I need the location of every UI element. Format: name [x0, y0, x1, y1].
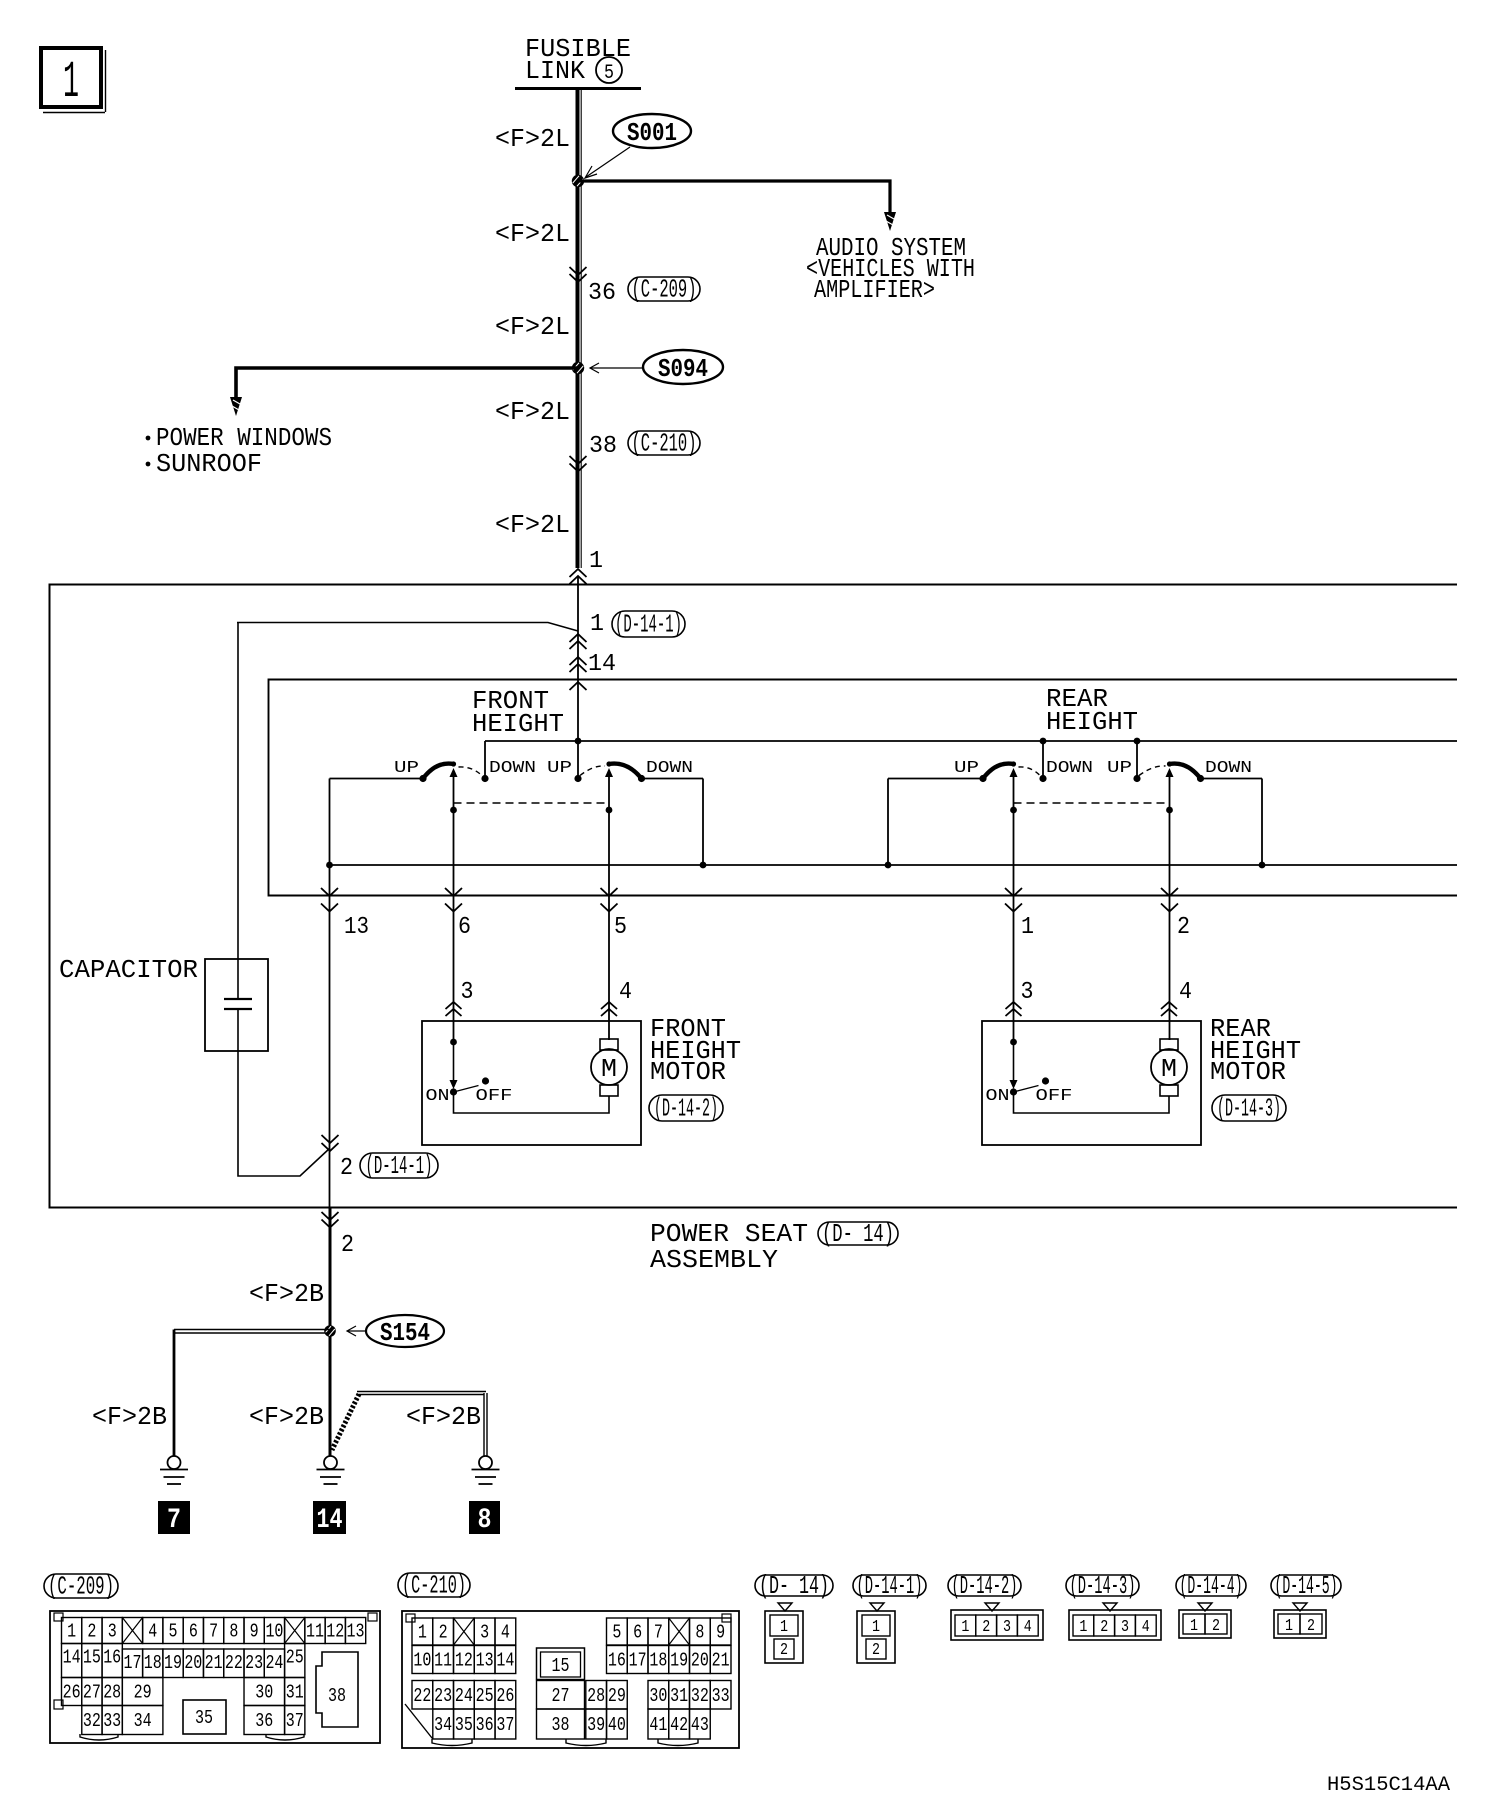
switch arm with arrow (second): [1169, 777, 1171, 810]
wire: 5 down to front motor pin 4: [608, 810, 610, 1040]
svg-text:8: 8: [229, 1621, 238, 1643]
svg-text:37: 37: [496, 1714, 514, 1736]
switch blade alternate (dashed to DOWN): [1019, 767, 1042, 777]
wire: main feed inside assembly: [577, 577, 579, 778]
wire: 2 down to rear motor pin 4: [1169, 810, 1171, 1040]
wire: UP contact to output: [888, 778, 983, 780]
svg-text:M: M: [1161, 1054, 1177, 1084]
switch blade alternate (dashed to DOWN): [459, 767, 484, 777]
connector D-14-4 pinout: [1176, 1575, 1246, 1596]
svg-text:21: 21: [205, 1652, 223, 1674]
ground 14: [324, 1456, 337, 1469]
connector D-14 pinout: [755, 1575, 833, 1596]
svg-text:13: 13: [344, 914, 369, 941]
svg-text:25: 25: [476, 1685, 494, 1707]
svg-text:9: 9: [250, 1621, 259, 1643]
svg-text:(C-209): (C-209): [48, 1572, 114, 1602]
svg-text:36: 36: [588, 280, 616, 307]
svg-text:23: 23: [245, 1652, 263, 1674]
connector C-209 pinout: [44, 1574, 118, 1598]
svg-text:14: 14: [588, 651, 616, 678]
svg-text:4: 4: [1024, 1618, 1032, 1637]
svg-text:5: 5: [614, 914, 627, 941]
wire: branch to ground 7: [174, 1329, 330, 1331]
switch blade (closed to UP): [983, 764, 1014, 779]
wire: 6 down to front motor pin 3: [453, 810, 455, 1042]
switch blade (closed to UP): [423, 764, 454, 779]
svg-text:32: 32: [691, 1685, 709, 1707]
svg-text:UP: UP: [1107, 759, 1132, 778]
mechanical link (dashed): [1014, 802, 1170, 804]
svg-text:<F>2L: <F>2L: [495, 397, 570, 427]
wire: capacitor to pin 2 junction: [238, 1009, 330, 1176]
svg-text:17: 17: [123, 1652, 141, 1674]
svg-text:7: 7: [209, 1621, 218, 1643]
svg-text:OFF: OFF: [476, 1087, 513, 1106]
svg-text:43: 43: [691, 1714, 709, 1736]
connector C-210 pinout: [398, 1573, 470, 1597]
svg-text:1: 1: [1190, 1617, 1198, 1636]
svg-text:41: 41: [649, 1714, 667, 1736]
svg-text:35: 35: [195, 1707, 213, 1729]
svg-text:<F>2B: <F>2B: [249, 1402, 324, 1432]
svg-text:26: 26: [63, 1682, 81, 1704]
svg-text:29: 29: [608, 1685, 626, 1707]
svg-text:6: 6: [458, 914, 471, 941]
svg-text:<F>2B: <F>2B: [406, 1402, 481, 1432]
contact UP: [419, 775, 426, 782]
svg-text:15: 15: [552, 1655, 570, 1677]
svg-text:(D-14-1): (D-14-1): [366, 1151, 433, 1181]
svg-text:31: 31: [286, 1682, 304, 1704]
svg-text:24: 24: [265, 1652, 283, 1674]
switch arm with arrow: [1013, 777, 1015, 810]
svg-text:42: 42: [670, 1714, 688, 1736]
node: power windows / sunroof label: [146, 436, 151, 441]
svg-text:1: 1: [590, 611, 604, 638]
contact UP: [979, 775, 986, 782]
svg-text:(D- 14): (D- 14): [759, 1571, 829, 1601]
svg-text:22: 22: [413, 1685, 431, 1707]
svg-text:<F>2L: <F>2L: [495, 510, 570, 540]
svg-text:20: 20: [184, 1652, 202, 1674]
ground 7: [168, 1456, 181, 1469]
wire: switch output pin 5: [601, 888, 618, 896]
svg-text:1: 1: [63, 53, 79, 112]
wire: switch supply bus: [485, 740, 1457, 742]
svg-text:<F>2L: <F>2L: [495, 219, 570, 249]
splice S094: [572, 362, 584, 374]
svg-text:9: 9: [716, 1622, 725, 1644]
svg-text:36: 36: [255, 1710, 273, 1732]
svg-text:17: 17: [629, 1650, 647, 1672]
power seat assembly box D-14: [50, 585, 1458, 1208]
front height motor assembly D-14-2: [422, 1021, 641, 1145]
svg-text:(D-14-1): (D-14-1): [615, 610, 682, 640]
svg-text:(D-14-4): (D-14-4): [1180, 1571, 1243, 1601]
svg-text:14: 14: [317, 1505, 343, 1536]
svg-text:10: 10: [265, 1621, 283, 1643]
svg-text:2: 2: [1212, 1617, 1220, 1636]
svg-text:ASSEMBLY: ASSEMBLY: [650, 1245, 778, 1275]
svg-text:<F>2B: <F>2B: [249, 1279, 324, 1309]
svg-text:14: 14: [496, 1650, 514, 1672]
svg-text:34: 34: [434, 1714, 452, 1736]
svg-text:25: 25: [286, 1647, 304, 1669]
svg-text:36: 36: [476, 1714, 494, 1736]
svg-text:26: 26: [496, 1685, 514, 1707]
connector C-209 crossing, pin 36: [570, 267, 587, 275]
svg-text:12: 12: [326, 1621, 344, 1643]
svg-text:M: M: [601, 1054, 617, 1084]
wire: 13 down to pin 2: [329, 865, 331, 1208]
svg-text:12: 12: [455, 1650, 473, 1672]
svg-text:MOTOR: MOTOR: [1210, 1057, 1286, 1087]
svg-text:UP: UP: [394, 759, 419, 778]
svg-text:37: 37: [286, 1710, 304, 1732]
svg-text:OFF: OFF: [1036, 1087, 1073, 1106]
svg-text:13: 13: [476, 1650, 494, 1672]
svg-text:33: 33: [712, 1685, 730, 1707]
svg-text:38: 38: [328, 1685, 346, 1707]
svg-text:4: 4: [501, 1622, 510, 1644]
wire: 1 down to rear motor pin 3: [1013, 810, 1015, 1042]
svg-text:CAPACITOR: CAPACITOR: [59, 955, 198, 985]
svg-text:19: 19: [164, 1652, 182, 1674]
svg-text:S154: S154: [380, 1318, 430, 1348]
svg-text:11: 11: [306, 1621, 324, 1643]
svg-text:3: 3: [461, 979, 474, 1006]
svg-text:6: 6: [633, 1622, 642, 1644]
svg-text:4: 4: [148, 1621, 157, 1643]
svg-text:HEIGHT: HEIGHT: [1046, 707, 1138, 737]
svg-text:15: 15: [83, 1647, 101, 1669]
svg-text:19: 19: [670, 1650, 688, 1672]
svg-text:4: 4: [619, 979, 632, 1006]
svg-text:22: 22: [225, 1652, 243, 1674]
svg-text:5: 5: [169, 1621, 178, 1643]
wire: switch to motor: [1014, 1092, 1170, 1113]
contact UP (second): [574, 775, 581, 782]
svg-text:(D-14-2): (D-14-2): [952, 1571, 1018, 1601]
splice S001: [572, 175, 584, 187]
switch blade alternate (dashed): [1139, 766, 1166, 776]
svg-text:ON: ON: [986, 1087, 1010, 1106]
svg-text:5: 5: [612, 1622, 621, 1644]
svg-text:2: 2: [780, 1641, 788, 1660]
svg-text:1: 1: [780, 1618, 788, 1637]
svg-text:1: 1: [1021, 914, 1034, 941]
mechanical link (dashed): [454, 802, 610, 804]
connector D-14-1 pinout: [853, 1575, 926, 1596]
wire: branch to ground 8 (hatched): [332, 1394, 359, 1450]
svg-text:30: 30: [649, 1685, 667, 1707]
svg-text:2: 2: [1100, 1618, 1108, 1637]
svg-text:18: 18: [649, 1650, 667, 1672]
svg-text:27: 27: [552, 1685, 570, 1707]
svg-text:(C-210): (C-210): [632, 429, 697, 459]
svg-text:7: 7: [167, 1505, 181, 1536]
svg-text:38: 38: [589, 433, 617, 460]
connector D-14-3 pinout: [1066, 1575, 1139, 1596]
svg-text:30: 30: [255, 1682, 273, 1704]
svg-text:16: 16: [103, 1647, 121, 1669]
svg-text:1: 1: [418, 1622, 427, 1644]
svg-text:6: 6: [189, 1621, 198, 1643]
page number box 1: [41, 48, 101, 107]
svg-text:11: 11: [434, 1650, 452, 1672]
svg-text:H5S15C14AA: H5S15C14AA: [1327, 1774, 1450, 1797]
svg-text:3: 3: [108, 1621, 117, 1643]
svg-text:(C-209): (C-209): [632, 275, 697, 305]
svg-text:ON: ON: [426, 1087, 450, 1106]
wire: jumper from pin 1 to capacitor branch: [237, 623, 578, 632]
wire: switch output pin 6: [445, 888, 462, 896]
svg-text:31: 31: [670, 1685, 688, 1707]
wire: DOWN contact to return bus: [642, 778, 704, 780]
svg-text:1: 1: [589, 548, 603, 575]
svg-text:LINK: LINK: [525, 56, 585, 86]
svg-text:UP: UP: [954, 759, 979, 778]
svg-text:2: 2: [439, 1622, 448, 1644]
svg-text:28: 28: [103, 1682, 121, 1704]
svg-text:4: 4: [1179, 979, 1192, 1006]
svg-text:DOWN: DOWN: [1046, 759, 1093, 778]
svg-text:(D-14-1): (D-14-1): [857, 1571, 923, 1601]
svg-text:HEIGHT: HEIGHT: [472, 709, 564, 739]
svg-text:14: 14: [63, 1647, 81, 1669]
svg-text:1: 1: [872, 1618, 880, 1637]
svg-text:UP: UP: [547, 759, 572, 778]
svg-text:DOWN: DOWN: [1205, 759, 1252, 778]
svg-text:2: 2: [340, 1155, 353, 1182]
splice S154: [324, 1325, 336, 1337]
svg-text:1: 1: [67, 1621, 76, 1643]
svg-text:(D-14-3): (D-14-3): [1217, 1094, 1281, 1124]
svg-text:<F>2L: <F>2L: [495, 312, 570, 342]
svg-text:2: 2: [872, 1641, 880, 1660]
connector D-14 pin 2: [322, 1212, 339, 1220]
motor M: [600, 1039, 618, 1050]
switch arm with arrow (second): [608, 777, 610, 810]
wire: switch output pin 1: [1005, 888, 1022, 896]
svg-text:10: 10: [413, 1650, 431, 1672]
svg-text:23: 23: [434, 1685, 452, 1707]
wire: DOWN contact to return bus: [1201, 778, 1263, 780]
svg-text:13: 13: [347, 1621, 365, 1643]
node: supply junction front: [575, 738, 582, 745]
svg-text:<F>2B: <F>2B: [92, 1402, 167, 1432]
thermal protector switch: [1010, 1039, 1017, 1046]
connector D-14-5 pinout: [1271, 1575, 1341, 1596]
wire: switch return bus: [330, 864, 1458, 866]
svg-text:39: 39: [587, 1714, 605, 1736]
contact UP (second): [1133, 775, 1140, 782]
contact DOWN (second): [638, 775, 645, 782]
svg-text:34: 34: [134, 1710, 152, 1732]
svg-text:1: 1: [961, 1618, 969, 1637]
svg-text:33: 33: [103, 1710, 121, 1732]
switch blade (closed to DOWN): [1170, 764, 1201, 779]
motor M: [1160, 1039, 1178, 1050]
contact DOWN: [1039, 775, 1046, 782]
switch arm with arrow: [453, 777, 455, 810]
wire: branch to audio system (thick): [578, 181, 890, 212]
svg-text:16: 16: [608, 1650, 626, 1672]
svg-text:3: 3: [1121, 1618, 1129, 1637]
svg-text:(D-14-3): (D-14-3): [1070, 1571, 1136, 1601]
svg-text:2: 2: [87, 1621, 96, 1643]
svg-text:S094: S094: [658, 354, 708, 384]
svg-text:(D- 14): (D- 14): [822, 1219, 894, 1249]
connector D-14-1 pin 2: [322, 1135, 339, 1143]
svg-text:20: 20: [691, 1650, 709, 1672]
svg-text:32: 32: [83, 1710, 101, 1732]
svg-text:(D-14-5): (D-14-5): [1275, 1571, 1338, 1601]
svg-text:AMPLIFIER>: AMPLIFIER>: [814, 275, 935, 305]
svg-text:5: 5: [604, 62, 614, 85]
power seat switch box: [269, 680, 1458, 896]
svg-text:2: 2: [982, 1618, 990, 1637]
wire: ground feed (F)2B: [329, 1208, 332, 1456]
svg-text:21: 21: [712, 1650, 730, 1672]
wire: UP contact to output: [330, 778, 424, 780]
svg-text:27: 27: [83, 1682, 101, 1704]
svg-text:35: 35: [455, 1714, 473, 1736]
wire: switch to motor: [454, 1092, 610, 1113]
svg-text:38: 38: [552, 1714, 570, 1736]
svg-text:3: 3: [1021, 979, 1034, 1006]
svg-text:8: 8: [695, 1622, 704, 1644]
svg-text:(D-14-2): (D-14-2): [654, 1094, 718, 1124]
switch blade (closed to DOWN): [609, 764, 642, 779]
ground 8: [479, 1456, 492, 1469]
wire: fusible link feed (thick): [576, 88, 580, 568]
svg-text:24: 24: [455, 1685, 473, 1707]
rear height motor assembly D-14-3: [982, 1021, 1201, 1145]
svg-text:DOWN: DOWN: [489, 759, 536, 778]
contact DOWN (second): [1197, 775, 1204, 782]
connector D-14-2 pinout: [948, 1575, 1021, 1596]
svg-text:SUNROOF: SUNROOF: [156, 449, 262, 479]
svg-text:<F>2L: <F>2L: [495, 124, 570, 154]
svg-text:1: 1: [1285, 1617, 1293, 1636]
svg-text:(C-210): (C-210): [402, 1571, 466, 1601]
svg-text:2: 2: [1307, 1617, 1315, 1636]
wire: drops from bus to rear switch: [1040, 738, 1047, 745]
svg-text:29: 29: [134, 1682, 152, 1704]
svg-text:S001: S001: [627, 118, 677, 148]
svg-text:3: 3: [1003, 1618, 1011, 1637]
svg-text:8: 8: [478, 1505, 492, 1536]
svg-text:MOTOR: MOTOR: [650, 1057, 726, 1087]
svg-text:7: 7: [654, 1622, 663, 1644]
svg-text:2: 2: [341, 1232, 354, 1259]
svg-text:40: 40: [608, 1714, 626, 1736]
svg-text:2: 2: [1177, 914, 1190, 941]
contact DOWN: [481, 775, 488, 782]
wire: switch output pin 13: [321, 888, 338, 896]
svg-text:18: 18: [144, 1652, 162, 1674]
switch blade alternate (dashed): [580, 766, 605, 776]
svg-text:3: 3: [480, 1622, 489, 1644]
svg-text:DOWN: DOWN: [646, 759, 693, 778]
svg-text:28: 28: [587, 1685, 605, 1707]
svg-text:4: 4: [1142, 1618, 1150, 1637]
wire: branch to power windows / sunroof (thick): [236, 368, 578, 397]
wire: drop to front DOWN contact: [484, 741, 486, 775]
svg-text:1: 1: [1079, 1618, 1087, 1637]
wire: switch output pin 2: [1161, 888, 1178, 896]
thermal protector switch: [450, 1039, 457, 1046]
